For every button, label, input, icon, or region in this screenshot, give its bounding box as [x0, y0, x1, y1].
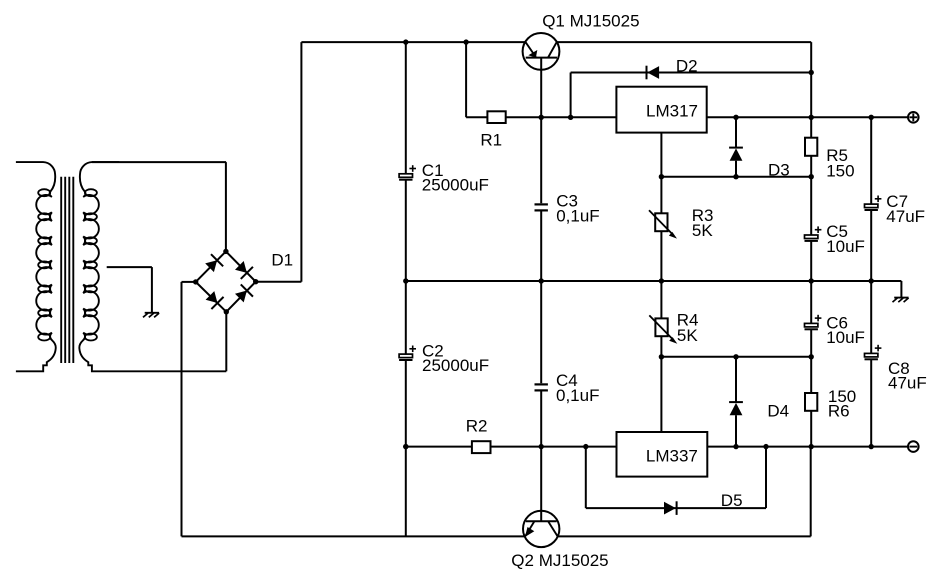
svg-text:0,1uF: 0,1uF: [556, 386, 599, 405]
svg-text:R1: R1: [480, 130, 502, 149]
svg-text:25000uF: 25000uF: [422, 176, 489, 195]
svg-text:D5: D5: [721, 491, 743, 510]
svg-text:R2: R2: [466, 416, 488, 435]
svg-text:D1: D1: [271, 251, 293, 270]
svg-text:D3: D3: [768, 161, 790, 180]
svg-text:LM317: LM317: [646, 101, 698, 120]
svg-text:LM337: LM337: [646, 446, 698, 465]
svg-text:25000uF: 25000uF: [422, 356, 489, 375]
svg-text:10uF: 10uF: [826, 237, 865, 256]
svg-text:5K: 5K: [677, 326, 698, 345]
svg-text:47uF: 47uF: [888, 374, 927, 393]
svg-text:10uF: 10uF: [826, 328, 865, 347]
svg-text:5K: 5K: [692, 221, 713, 240]
svg-text:47uF: 47uF: [886, 207, 925, 226]
svg-text:D4: D4: [767, 401, 789, 420]
svg-text:Q1 MJ15025: Q1 MJ15025: [542, 11, 639, 30]
svg-text:Q2 MJ15025: Q2 MJ15025: [511, 551, 608, 570]
svg-text:0,1uF: 0,1uF: [556, 206, 599, 225]
svg-text:D2: D2: [676, 56, 698, 75]
svg-text:R6: R6: [828, 401, 850, 420]
svg-text:150: 150: [826, 161, 854, 180]
